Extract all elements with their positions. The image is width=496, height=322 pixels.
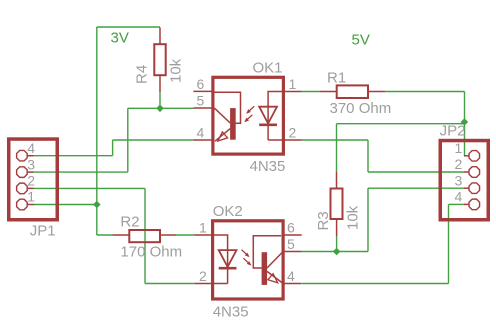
wire to OK2 pin2 [145,283,194,285]
wire JP1 pin2 horizontal [33,187,145,189]
svg-text:2: 2 [199,268,207,284]
svg-text:4: 4 [287,268,295,284]
wire JP2 pin3 horizontal [368,187,464,189]
optocoupler OK1 [193,59,301,175]
OK1 LED triangle [259,107,277,124]
resistor R2 [113,213,182,260]
svg-text:2: 2 [289,125,297,141]
svg-text:3V: 3V [111,30,129,47]
optocoupler OK2 [194,203,301,321]
svg-text:2: 2 [27,173,35,189]
OK2 phototransistor base path [253,236,281,268]
JP1 box [9,139,58,220]
wire 3V rail to R2 [97,234,113,236]
OK1 pin 4 stub [193,139,213,141]
R2 left pin [113,234,130,236]
svg-text:5V: 5V [352,32,370,49]
R4 body [154,44,165,75]
svg-text:10k: 10k [168,58,185,83]
wire elbow down [367,140,369,172]
OK2 pin 6 stub [283,234,302,236]
svg-text:3: 3 [455,172,463,188]
OK2 pin 1 stub [194,234,212,236]
R2 body [129,230,160,242]
svg-text:JP1: JP1 [30,223,56,240]
wire down to JP2 pin1 [464,92,466,156]
R3 bottom pin [336,219,338,236]
wire OK1 pin2 horizontal [302,139,369,141]
connector JP2 [440,123,489,220]
svg-text:2: 2 [455,156,463,172]
JP1 pin 4 stub [28,155,34,157]
OK1 box [213,77,284,154]
OK2 pin 5 stub [283,251,302,253]
svg-text:1: 1 [455,140,463,156]
OK2 light arrow 2 [243,258,251,265]
JP2 pin 2 stub [464,171,469,173]
JP2 pin 3 stub [464,187,469,189]
junction R4 bottom / OK1 pin5 wire [156,105,164,113]
wire OK1 pin1 to R1 left [302,91,320,93]
JP2 pin 1 stub [464,155,469,157]
OK2 emitter diagonal [267,271,283,283]
svg-text:4N35: 4N35 [250,158,286,175]
svg-text:170 Ohm: 170 Ohm [120,243,182,260]
wire OK2 pin5 horizontal [302,251,368,253]
svg-text:JP2: JP2 [440,123,466,140]
R2 right pin [160,234,176,236]
OK2 LED cathode bar [219,267,237,270]
svg-text:370 Ohm: 370 Ohm [330,100,392,117]
svg-text:4: 4 [197,125,205,141]
OK1 emitter arrow [218,132,228,141]
JP2 pin 4 circle [469,199,480,210]
wire elbow up [112,140,114,156]
wire R1 right horizontal [385,91,464,93]
OK1 LED cathode path [268,126,283,140]
OK1 light arrow 2 [244,115,252,122]
svg-text:R4: R4 [133,65,150,84]
svg-text:6: 6 [197,76,205,92]
svg-text:1: 1 [27,189,35,205]
OK1 pin 6 stub [193,90,213,92]
wire JP1 pin3 horizontal [33,171,128,173]
R1 right pin [368,91,385,93]
wire to OK1 pin5 [128,107,194,109]
resistor R3 [315,172,362,236]
JP1 pin 2 stub [28,187,34,189]
wire 3V rail left vertical [96,27,98,235]
wire R4 bottom vertical [159,92,161,108]
JP1 pin 4 circle [17,150,28,161]
OK2 LED anode path [212,235,227,267]
wire vertical down to OK2 pin2 row [144,188,146,283]
wire vertical down to OK2 pin5 row [367,188,369,251]
OK2 light arrow 1 [242,250,250,257]
OK1 emitter diagonal [215,129,230,142]
OK2 emitter arrow [268,274,278,283]
wire 3V rail top horizontal [97,26,160,28]
OK1 collector diagonal [215,108,231,123]
JP2 pin 2 circle [469,167,480,178]
svg-text:R3: R3 [315,211,332,230]
svg-text:6: 6 [287,219,295,235]
svg-text:5: 5 [197,93,205,109]
OK1 phototransistor base bar [230,108,236,140]
JP2 pin 1 circle [469,151,480,162]
svg-text:R1: R1 [327,69,346,86]
wire vertical down to JP1 pin3 row [127,108,129,172]
wire OK2 pin4 horizontal [302,283,449,285]
R1 body [337,85,368,98]
junction R3 bottom / OK2 pin5 wire [333,248,341,256]
R3 body [331,189,343,220]
JP1 pin 1 circle [17,199,28,210]
svg-text:5: 5 [287,236,295,252]
OK1 light arrow 1 [246,106,254,113]
OK1 LED anode path [268,92,283,124]
svg-text:1: 1 [289,76,297,92]
JP2 pin 4 stub [464,203,469,205]
OK1 LED cathode bar [259,124,277,127]
JP2 box [440,141,488,220]
svg-text:1: 1 [199,219,207,235]
OK1 pin 2 stub [285,139,302,141]
wire to OK1 pin4 [113,139,194,141]
R4 top pin [159,28,161,45]
svg-text:4N35: 4N35 [213,304,249,321]
resistor R4 [133,28,184,93]
JP1 pin 1 stub [28,204,34,206]
wire R3 top vertical [336,124,338,172]
OK2 phototransistor base bar [262,252,268,285]
R1 left pin [320,91,337,93]
wire R2 right to OK2 pin1 [176,234,195,236]
svg-text:4: 4 [27,140,35,156]
junction 3V rail / JP1 pin1 [93,201,101,209]
OK2 pin 2 stub [194,283,212,285]
OK1 phototransistor base path [215,92,241,123]
svg-text:4: 4 [455,189,463,205]
svg-text:OK2: OK2 [213,203,243,220]
svg-text:3: 3 [27,156,35,172]
wire to JP2 pin2 [368,171,464,173]
R4 bottom pin [159,75,161,92]
JP1 pin 2 circle [17,183,28,194]
OK1 pin 5 stub [193,107,213,109]
svg-text:OK1: OK1 [253,59,283,76]
JP2 pin 3 circle [469,183,480,194]
wire JP1 pin4 horizontal [33,155,113,157]
OK2 LED triangle [219,250,237,267]
JP1 pin 3 circle [17,167,28,178]
wire JP2 pin4 elbow [449,203,465,205]
OK2 LED cathode path [212,269,227,283]
OK1 pin 1 stub [285,91,302,93]
wire vertical up to JP2 pin4 [448,204,450,283]
wire JP1 pin1 to 3V rail [33,204,97,206]
wire R3 top horizontal [337,123,465,125]
wire R3 bottom vertical [336,236,338,251]
connector JP1 [9,139,58,239]
OK2 collector diagonal [267,252,283,268]
resistor R1 [320,69,392,117]
junction R1 / R3 / JP2 pin1 [461,118,469,126]
svg-text:10k: 10k [344,205,361,230]
OK2 box [213,221,284,299]
R3 top pin [336,172,338,189]
svg-text:R2: R2 [120,213,139,230]
OK2 pin 4 stub [283,283,302,285]
JP1 pin 3 stub [28,171,34,173]
